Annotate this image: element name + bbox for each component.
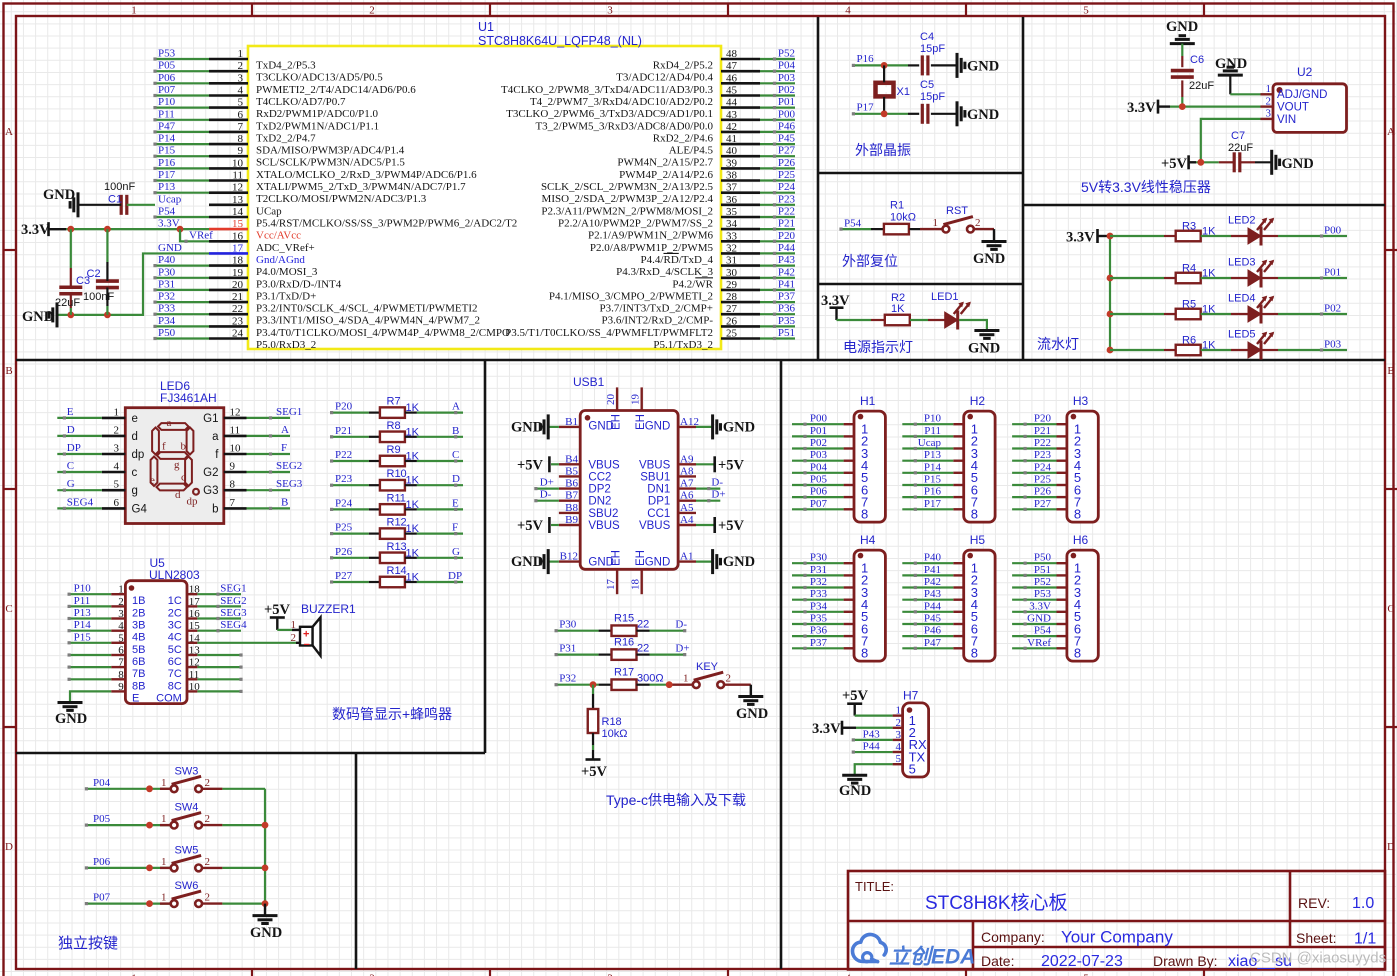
U5 pin 7 wire [69,666,111,668]
wire R7 to net A [405,412,417,414]
wire net SEG3 from U5 pin 16 [197,617,241,619]
H1 pin 3 wire [792,447,844,449]
svg-text:8: 8 [861,507,868,522]
junction at SW6 pin1 wire [146,900,153,907]
svg-text:TxD2/PWM1N/ADC1/P1.1: TxD2/PWM1N/ADC1/P1.1 [256,120,379,132]
wire net P02 from U1 pin 45 [760,94,795,96]
svg-text:36: 36 [726,194,738,206]
wire R15 to net D- [637,630,650,632]
svg-text:1: 1 [131,5,137,17]
svg-text:2: 2 [114,424,120,436]
svg-text:B6: B6 [565,478,578,490]
power 3.3V symbol LED chain [1096,229,1099,243]
svg-text:P4.0/MOSI_3: P4.0/MOSI_3 [256,266,318,278]
svg-text:2: 2 [896,717,902,729]
U1 pin 37 line [721,191,760,194]
svg-text:BUZZER1: BUZZER1 [301,602,356,616]
svg-text:P35: P35 [778,315,796,327]
ground for LED1 [974,329,999,332]
connector H5 body [964,550,995,661]
U1 pin 35 line [721,216,760,219]
crystal X1 [876,83,894,97]
ground for KEY [738,695,763,698]
wire +5V to buzzer pin 1 [277,629,292,631]
wire R12 to net F [405,532,417,534]
wire U5 pin 9 to ground [70,691,111,702]
svg-text:6C: 6C [168,656,182,668]
H1 pin1 dot [858,414,864,420]
wire net D+ from USB1 A6 [696,500,720,502]
H5 pin 5 wire [902,611,953,613]
svg-text:R8: R8 [387,420,401,432]
svg-text:P44: P44 [863,741,881,753]
svg-text:T2CLKO/MOSI/PWM2N/ADC3/P1.3: T2CLKO/MOSI/PWM2N/ADC3/P1.3 [256,193,427,205]
svg-text:1: 1 [161,813,167,825]
svg-text:23: 23 [232,315,244,327]
svg-text:T4CLKO/AD7/P0.7: T4CLKO/AD7/P0.7 [256,96,346,108]
svg-text:SEG2: SEG2 [276,460,302,472]
svg-text:GND: GND [736,706,768,722]
svg-text:4C: 4C [168,632,182,644]
svg-text:CSDN @xiaosuyyds: CSDN @xiaosuyyds [1250,950,1386,967]
junction +5V at VIN branch [1197,159,1204,166]
svg-text:8C: 8C [168,680,182,692]
svg-text:P23: P23 [1034,449,1052,461]
svg-text:E: E [132,692,139,704]
wire net P27 from U1 pin 40 [760,155,795,157]
H2 pin 4 line [953,460,963,462]
svg-text:P24: P24 [335,497,353,509]
power 3.3V at H7 pin2 [841,721,844,735]
title block outline [848,871,1385,970]
H4 pin 4 line [844,599,854,601]
U1 pin 46 line [721,82,760,85]
junction P32 at R18 branch [590,681,597,688]
svg-text:DP2: DP2 [588,484,610,496]
resistor R5 [1176,309,1201,320]
H6 pin 7 wire [1012,635,1056,637]
svg-text:g: g [132,485,138,497]
wire net P05 to U1 pin 2 [155,70,209,72]
wire KEY pin2 to ground [724,684,751,686]
svg-text:H4: H4 [860,533,876,547]
svg-text:P03: P03 [1324,339,1342,351]
svg-text:2: 2 [726,673,732,685]
svg-text:P27: P27 [778,145,796,157]
svg-text:P46: P46 [924,625,942,637]
wire R4 to LED3 [1201,277,1231,279]
svg-text:SCLK_2/SCL_2/PWM3N_2/A13/P2.5: SCLK_2/SCL_2/PWM3N_2/A13/P2.5 [541,181,714,193]
wire net P22 from U1 pin 35 [760,216,795,218]
connector H7 body [903,703,929,777]
svg-text:+5V: +5V [517,458,544,474]
U5 pin 2 line [111,605,125,607]
wire net P21 from U1 pin 34 [760,228,795,230]
svg-text:P54: P54 [158,206,176,218]
svg-text:P47: P47 [158,120,176,132]
frame column ticks top [251,4,253,17]
svg-text:e: e [150,475,155,487]
svg-text:P54: P54 [1034,625,1052,637]
H2 pin 1 wire [902,423,953,425]
svg-text:19: 19 [630,394,642,406]
svg-text:P41: P41 [924,564,941,576]
wire net P30 to R15 [556,630,599,632]
svg-text:22: 22 [637,619,649,631]
U5 pin 9 line [111,690,125,692]
wire net P13 to U1 pin 12 [155,192,209,194]
wire from U5 pin 12 [197,666,241,668]
H1 pin 6 line [844,484,854,486]
LED LED4 [1248,306,1261,322]
wire R18 to +5V [592,733,594,745]
svg-text:P37: P37 [810,637,828,649]
svg-text:GND: GND [511,554,543,570]
wire net P45 from U1 pin 41 [760,143,795,145]
svg-text:P43: P43 [778,254,796,266]
svg-text:P43: P43 [863,728,881,740]
svg-text:P16: P16 [924,486,942,498]
wire stub to SW4 [160,824,171,826]
svg-text:H1: H1 [860,394,876,408]
wire stub to SW3 [160,788,171,790]
svg-text:P03: P03 [810,449,828,461]
svg-text:R15: R15 [614,613,634,625]
resistor R16 [612,649,637,660]
svg-text:GND: GND [645,421,671,433]
U1 pin 34 line [721,228,760,231]
svg-text:F: F [452,522,458,534]
svg-text:R7: R7 [387,396,401,408]
svg-text:GND: GND [588,557,614,569]
svg-text:SEG3: SEG3 [220,607,247,619]
svg-text:2: 2 [369,5,375,17]
H6 pin 4 line [1057,599,1067,601]
H2 pin 5 wire [902,472,953,474]
H6 pin 6 line [1057,623,1067,625]
svg-text:P4.2/WR: P4.2/WR [672,278,713,290]
wire R10 to net D [405,484,417,486]
svg-text:44: 44 [726,97,738,109]
USB1 pin B5 line [559,475,580,477]
wire net P30 to U1 pin 19 [155,277,209,279]
U2 pin1 dot [1277,87,1283,93]
svg-text:GND: GND [1215,56,1247,72]
LED6 pin 8 line [224,489,247,492]
svg-text:P54: P54 [844,218,862,230]
svg-text:B4: B4 [565,453,578,465]
svg-text:DN2: DN2 [588,496,611,508]
svg-text:P30: P30 [559,619,577,631]
wire net SEG2 from U5 pin 17 [197,605,241,607]
U1 pin 36 line [721,204,760,207]
svg-text:+5V: +5V [581,764,608,780]
H6 pin 4 wire [1012,599,1056,601]
svg-text:P3.7/INT3/TxD_2/CMP+: P3.7/INT3/TxD_2/CMP+ [600,303,713,315]
svg-text:17: 17 [232,242,244,254]
wire net P04 to SW3 [86,788,170,790]
svg-text:SEG1: SEG1 [220,583,246,595]
USB1 pin B12 line [559,560,580,562]
wire net P20 from U1 pin 33 [760,240,795,242]
wire from U5 pin 10 [197,690,241,692]
svg-text:R17: R17 [614,667,634,679]
svg-text:R13: R13 [387,541,407,553]
H7 pin 4 line [893,751,903,753]
svg-text:P34: P34 [810,600,828,612]
svg-text:A9: A9 [680,453,694,465]
svg-text:3.3V: 3.3V [21,222,50,238]
svg-text:P11: P11 [158,108,175,120]
svg-text:SEG1: SEG1 [276,406,302,418]
wire net E to LED6 pin 1 [57,417,102,419]
svg-text:A1: A1 [680,551,693,563]
U1 pin 5 line [209,106,248,109]
svg-text:P14: P14 [158,133,176,145]
H3 pin 3 wire [1012,447,1056,449]
svg-text:11: 11 [230,424,241,436]
H1 pin 3 line [844,447,854,449]
svg-text:7B: 7B [132,668,145,680]
resistor R6 [1176,345,1201,356]
LED LED5 [1248,342,1261,358]
svg-text:A5: A5 [680,502,694,514]
U5 pin 10 line [187,690,197,692]
junction bus top [1107,233,1114,240]
svg-text:P3.0/RxD/D-/INT4: P3.0/RxD/D-/INT4 [256,278,342,290]
H4 pin 8 wire [792,647,844,649]
resistor R2 [885,315,910,326]
LED6 pin 4 line [102,471,125,474]
svg-text:C2: C2 [87,268,101,280]
svg-text:RST: RST [946,205,968,217]
svg-text:3B: 3B [132,620,145,632]
U1 pin 40 line [721,155,760,158]
U1 pin 24 line [209,337,248,340]
H1 pin 4 wire [792,460,844,462]
svg-text:45: 45 [726,85,738,97]
LED6 pin 7 line [224,507,247,510]
svg-text:P00: P00 [1324,225,1342,237]
svg-text:17: 17 [605,579,617,591]
svg-text:P17: P17 [924,498,942,510]
ground at USB1 B12 [549,560,559,562]
wire keys bus to ground [264,904,266,916]
H4 pin 7 line [844,635,854,637]
H6 pin 7 line [1057,635,1067,637]
H6 pin1 dot [1071,553,1077,559]
LED6 pin 9 line [224,471,247,474]
frame column ticks bottom [251,969,253,976]
wire net P51 from U1 pin 25 [760,337,795,339]
wire net P15 to U1 pin 9 [155,155,209,157]
svg-text:1.0: 1.0 [1352,895,1374,912]
svg-text:P22: P22 [778,206,795,218]
svg-text:P4.3/RxD_4/SCLK_3: P4.3/RxD_4/SCLK_3 [616,266,713,278]
svg-text:P07: P07 [810,498,828,510]
wire net P23 to R10 [332,484,369,486]
svg-text:GND: GND [55,711,87,727]
regulator U2 body [1273,84,1347,133]
H3 pin 5 line [1057,472,1067,474]
resistor R15 [612,625,637,636]
svg-text:1C: 1C [168,595,182,607]
svg-text:8: 8 [118,669,124,681]
svg-text:22uF: 22uF [1228,142,1253,154]
H5 pin 7 wire [902,635,953,637]
wire net P24 to R11 [332,508,369,510]
U5 pin 2 wire [69,605,111,607]
U5 pin 5 wire [69,642,111,644]
svg-text:Type-c供电输入及下载: Type-c供电输入及下载 [606,792,746,808]
H3 pin 4 wire [1012,460,1056,462]
svg-text:P44: P44 [924,600,942,612]
svg-text:2: 2 [118,596,124,608]
svg-text:P30: P30 [810,552,828,564]
svg-text:40: 40 [726,145,738,157]
wire net P05 to SW4 [86,824,170,826]
svg-text:20: 20 [232,279,244,291]
svg-text:2B: 2B [132,607,145,619]
H7 pin 2 line [893,727,903,729]
wire net P01 from U1 pin 44 [760,106,795,108]
H5 pin 3 wire [902,586,953,588]
svg-text:VRef: VRef [189,230,213,242]
H5 pin 6 wire [902,623,953,625]
svg-text:GND: GND [968,341,1000,357]
LED6 segment e [151,457,158,487]
svg-text:P20: P20 [335,401,353,413]
wire bus to R5 [1110,313,1164,315]
svg-text:SEG3: SEG3 [276,478,303,490]
svg-text:P51: P51 [1034,564,1051,576]
H2 pin 1 line [953,423,963,425]
U1 pin 33 line [721,240,760,243]
resistor R13 [380,553,405,564]
H2 pin 6 line [953,484,963,486]
svg-text:1: 1 [114,406,120,418]
svg-text:LED4: LED4 [1228,293,1256,305]
svg-text:P52: P52 [1034,576,1051,588]
svg-text:P36: P36 [778,303,796,315]
svg-text:6: 6 [238,109,244,121]
U5 pin 15 line [187,630,197,632]
svg-text:25: 25 [726,328,738,340]
H4 pin 2 wire [792,574,844,576]
wire net P32 to U1 pin 21 [155,301,209,303]
USB1 pin B9 line [559,524,580,526]
H1 pin 7 line [844,496,854,498]
svg-text:22: 22 [637,642,649,654]
U1 pin 26 line [721,325,760,328]
H7 pin 1 line [893,714,903,716]
H3 pin 2 wire [1012,435,1056,437]
svg-text:2: 2 [369,973,375,976]
power +5V at USB1 A9 [696,463,715,465]
H4 pin 2 line [844,574,854,576]
junction bus row3 [1107,311,1114,318]
wire bus to R3 [1110,235,1164,237]
resistor R18 vertical [588,709,599,733]
LED LED1 [945,312,958,328]
svg-text:P50: P50 [158,327,176,339]
connector USB1 body [580,411,678,570]
U5 pin 1 wire [69,593,111,595]
connector H4 body [854,550,885,661]
svg-text:P10: P10 [158,96,176,108]
svg-text:12: 12 [232,182,243,194]
ground for keys [253,914,278,917]
svg-text:P31: P31 [810,564,827,576]
svg-text:43: 43 [726,109,738,121]
U1 pin 6 line [209,119,248,122]
svg-text:7: 7 [238,121,244,133]
svg-text:P27: P27 [1034,498,1052,510]
svg-text:R10: R10 [387,468,407,480]
wire net G to LED6 pin 5 [57,489,102,491]
svg-text:Company:: Company: [981,929,1045,945]
resistor R17 [612,679,637,690]
wire R8 to net B [405,436,417,438]
svg-text:SBU2: SBU2 [588,508,618,520]
svg-text:D: D [1387,841,1395,853]
svg-text:GND: GND [511,420,543,436]
wire U1 pin 17 GND down to ground rail [57,253,209,314]
svg-text:SW4: SW4 [175,802,199,814]
wire net P16 to U1 pin 10 [155,167,209,169]
junction at SW4 pin1 wire [146,822,153,829]
junction 3.3V rail at C3 [67,226,74,233]
resistor R4 [1176,273,1201,284]
wire net P06 to SW5 [86,867,170,869]
svg-text:P25: P25 [335,522,353,534]
section divider lines [817,17,820,360]
switch SW5 [171,865,178,872]
svg-text:P07: P07 [93,892,111,904]
svg-text:3: 3 [896,729,902,741]
U1 pin 12 line [209,191,248,194]
svg-text:P13: P13 [158,181,176,193]
H5 pin 8 wire [902,647,953,649]
svg-text:R11: R11 [387,492,406,504]
svg-text:Gnd/AGnd: Gnd/AGnd [256,254,305,266]
svg-text:ULN2803: ULN2803 [149,568,200,582]
svg-text:C: C [452,449,459,461]
svg-text:T3CLKO_2/PWM6_3/TxD3/ADC9/AD1/: T3CLKO_2/PWM6_3/TxD3/ADC9/AD1/P0.1 [506,108,713,120]
svg-text:P14: P14 [924,461,942,473]
wire R13 to net G [405,557,417,559]
buzzer BUZZER1 body [300,627,313,646]
wire SW6 pin2 to bus [202,902,222,904]
LED6 segment f [152,428,159,455]
U1 pin 45 line [721,94,760,97]
resistor R11 [380,504,405,515]
USB1 pin A9 line [678,463,696,465]
switch SW6 [171,900,178,907]
U5 pin 12 line [187,666,197,668]
power +5V at USB1 B4 [551,463,559,465]
U5 pin 11 line [187,678,197,680]
svg-text:GND: GND [1166,19,1198,35]
svg-text:STC8H8K核心板: STC8H8K核心板 [925,892,1068,914]
svg-text:P3.4/T0/T1CLKO/MOSI_4/PWM4P_4/: P3.4/T0/T1CLKO/MOSI_4/PWM4P_4/PWM8_2/CMP… [256,327,510,339]
svg-text:11: 11 [232,170,243,182]
svg-text:21: 21 [232,291,243,303]
wire net P43 to H7 pin3 [853,739,892,741]
svg-text:RxD2/PWM1P/ADC0/P1.0: RxD2/PWM1P/ADC0/P1.0 [256,108,378,120]
svg-text:P05: P05 [158,60,176,72]
svg-text:B12: B12 [560,551,578,563]
